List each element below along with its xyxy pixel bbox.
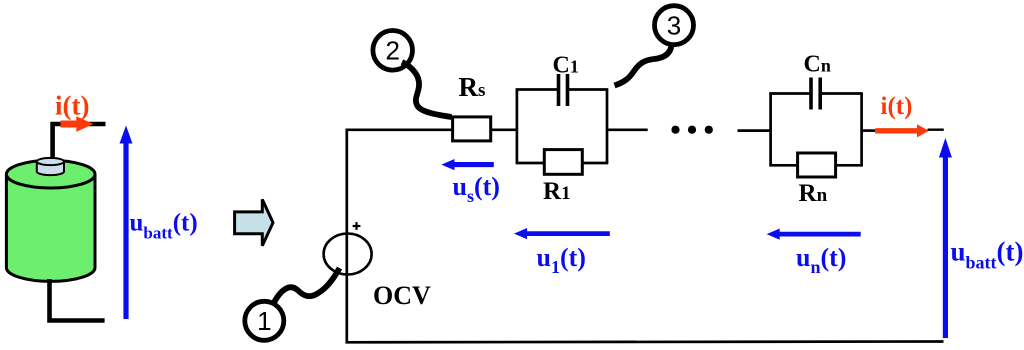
wire RCn to output — [862, 129, 876, 132]
battery cell (green cylinder) — [6, 160, 95, 281]
resistor R1 — [544, 150, 582, 175]
svg-text:3: 3 — [667, 11, 681, 41]
voltage arrow u_batt(t) left — [120, 126, 133, 320]
svg-text:1: 1 — [257, 306, 271, 336]
svg-text:Cn: Cn — [804, 52, 831, 78]
svg-text:un(t): un(t) — [796, 243, 846, 277]
svg-text:u1(t): u1(t) — [537, 243, 586, 277]
wire top left segment — [346, 128, 453, 131]
svg-text:OCV: OCV — [373, 281, 431, 310]
callout 2 circle — [373, 31, 413, 71]
voltage arrow u_batt(t) right — [939, 138, 952, 338]
capacitor C1 — [559, 74, 568, 106]
svg-text:Rn: Rn — [799, 180, 828, 207]
block arrow (transformation) — [235, 199, 273, 245]
svg-text:2: 2 — [385, 36, 399, 66]
RC network n frame wires — [769, 94, 863, 166]
voltage source OCV — [324, 234, 372, 275]
resistor Rn — [798, 153, 836, 177]
callout 3 circle — [655, 6, 694, 45]
svg-text:ubatt(t): ubatt(t) — [130, 210, 198, 243]
battery terminal cap — [37, 158, 64, 175]
svg-text:us(t): us(t) — [453, 172, 500, 206]
callout 1 leader squiggle — [274, 268, 340, 304]
voltage arrow u_1(t) — [514, 228, 610, 239]
wire Rs to RC1 — [491, 128, 517, 131]
svg-text:Rs: Rs — [459, 72, 486, 102]
svg-text:C1: C1 — [553, 53, 579, 79]
svg-text:ubatt(t): ubatt(t) — [951, 237, 1024, 273]
wire left vertical branch — [345, 130, 348, 343]
wire bottom return — [346, 340, 944, 343]
svg-text:i(t): i(t) — [55, 91, 89, 121]
wire dots to RCn — [738, 129, 771, 132]
callout 2 leader squiggle — [402, 62, 452, 117]
resistor Rs — [453, 117, 491, 141]
callout 3 leader squiggle — [615, 45, 672, 86]
ellipsis dots — [671, 126, 713, 134]
wire RC1 to dots — [607, 128, 648, 131]
svg-text:R1: R1 — [543, 178, 571, 205]
current arrow i(t) right — [875, 124, 929, 137]
wire battery positive lead — [53, 124, 106, 159]
RC network 1 frame wires — [516, 90, 609, 164]
voltage arrow u_n(t) — [767, 229, 861, 240]
wire battery negative lead — [50, 279, 105, 321]
capacitor Cn — [811, 78, 820, 110]
callout 1 circle — [245, 301, 284, 340]
svg-text:i(t): i(t) — [881, 93, 913, 120]
voltage arrow u_s(t) — [441, 159, 493, 170]
plus sign of source — [353, 222, 361, 230]
wire output terminal top — [928, 128, 944, 130]
current arrow i(t) left — [61, 116, 94, 132]
